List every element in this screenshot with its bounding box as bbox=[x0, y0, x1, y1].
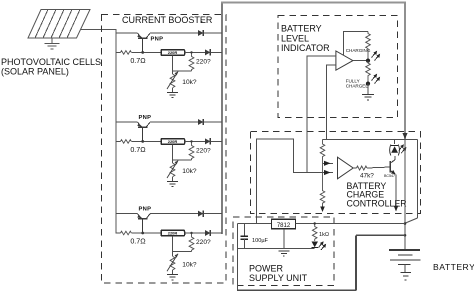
wire base rail from bus bbox=[116, 140, 121, 142]
wire tap to potentiometer bbox=[172, 71, 174, 74]
wire stage2 emitter rail from bus bbox=[116, 121, 138, 123]
svg-text:PNP: PNP bbox=[139, 206, 152, 212]
svg-text:1kΩ: 1kΩ bbox=[319, 232, 329, 238]
wire tap to 220 bottom bbox=[173, 70, 192, 72]
wire base rail from bus bbox=[116, 232, 121, 234]
dashed box CURRENT BOOSTER bbox=[102, 15, 227, 284]
wire tap to potentiometer bbox=[172, 252, 174, 257]
wire diode to output bus bbox=[203, 213, 222, 215]
svg-text:BC547: BC547 bbox=[384, 174, 395, 178]
LED power arrows bbox=[319, 242, 326, 250]
LED fully-charged node bbox=[366, 82, 370, 86]
wire box bottom tap down bbox=[172, 55, 174, 71]
LED fully-charged arrows bbox=[372, 75, 380, 84]
wire U1 output to node bbox=[353, 60, 368, 62]
wire U2 output bbox=[353, 167, 356, 169]
junction base/rail bbox=[141, 140, 144, 143]
wire box to lower diode bbox=[185, 232, 206, 234]
wire psu feed loop bbox=[257, 139, 334, 223]
wire sense line B down to top rail bbox=[326, 118, 328, 140]
svg-text:47k?: 47k? bbox=[360, 172, 374, 179]
wire 7812 ground pin bbox=[283, 229, 285, 249]
wire stage1 emitter rail from bus bbox=[116, 32, 138, 34]
wire box to lower diode bbox=[185, 140, 206, 142]
ground battery bbox=[400, 273, 411, 280]
svg-text:POWER: POWER bbox=[249, 264, 284, 274]
wire divider tap to U2 plus input bbox=[323, 162, 334, 164]
LED D7 with bracket bbox=[390, 145, 400, 156]
wire right bus down bbox=[404, 3, 406, 141]
svg-text:10k?: 10k? bbox=[182, 79, 197, 86]
wire feedback loop top bbox=[344, 32, 368, 56]
resistor box 220R stage2 bbox=[161, 139, 185, 145]
svg-text:100µF: 100µF bbox=[252, 238, 269, 244]
wire diode to output bus bbox=[203, 32, 222, 34]
diode D3b on base rail bbox=[205, 230, 210, 236]
svg-text:(SOLAR PANEL): (SOLAR PANEL) bbox=[1, 67, 69, 77]
wire bottom rail bbox=[237, 289, 356, 291]
resistor 220 ohm vertical stage3 bbox=[189, 233, 194, 252]
wire psu left drop bbox=[237, 224, 239, 291]
wire box bottom tap down bbox=[172, 236, 174, 252]
resistor 0.7ohm stage3 bbox=[121, 231, 132, 235]
LED D7 arrows bbox=[399, 145, 406, 153]
wire stage3 emitter rail from bus bbox=[116, 213, 138, 215]
LED charging arrows bbox=[372, 52, 380, 61]
arrow divider to ground rail bbox=[322, 206, 324, 209]
wire lower diode to bus bbox=[210, 232, 222, 234]
potentiometer 10k stage2 bbox=[170, 163, 175, 177]
potentiometer 10k stage3 bbox=[170, 256, 175, 270]
wire lower diode to bus bbox=[210, 51, 222, 53]
trailing dot after CURRENT BOOSTER bbox=[201, 21, 203, 23]
ground stage3 bbox=[167, 275, 178, 280]
wire diode to output bus bbox=[203, 121, 222, 123]
svg-text:220R: 220R bbox=[168, 231, 178, 236]
svg-text:PNP: PNP bbox=[139, 115, 152, 121]
wire controller top rail bbox=[323, 138, 418, 140]
wire battery to ground bbox=[404, 265, 406, 273]
diode D1a on collector rail bbox=[198, 30, 203, 36]
svg-text:PHOTOVOLTAIC CELLS: PHOTOVOLTAIC CELLS bbox=[1, 57, 101, 67]
junction base/rail bbox=[141, 51, 144, 54]
wire U1 minus input to sense line B bbox=[327, 65, 336, 117]
diode D2a on collector rail bbox=[198, 119, 203, 125]
svg-text:SUPPLY UNIT: SUPPLY UNIT bbox=[249, 273, 308, 283]
ground below solar panel bbox=[45, 38, 60, 49]
dashed box POWER SUPPLY UNIT bbox=[233, 217, 334, 285]
junction base/rail bbox=[141, 232, 144, 235]
svg-text:BATTERY: BATTERY bbox=[433, 262, 474, 272]
op-amp U2 bbox=[338, 157, 354, 179]
wire U1 plus input to sense line A bbox=[307, 56, 336, 118]
arrow current into rail on right bus bbox=[402, 133, 407, 139]
junction rail/220 bbox=[190, 51, 192, 53]
wire tap to 220 bottom bbox=[173, 251, 192, 253]
ground 7812 bbox=[278, 251, 289, 256]
resistor 47k bbox=[357, 166, 367, 170]
diode D2b on base rail bbox=[205, 138, 210, 144]
junction rail/220 bbox=[190, 140, 192, 142]
dashed box BATTERY LEVEL INDICATOR bbox=[278, 16, 398, 118]
wire collector rail to diode bbox=[150, 32, 198, 34]
transistor Q4 BC547 bbox=[390, 160, 395, 175]
arrow into U2 plus input bbox=[324, 161, 331, 166]
wire top rail across bbox=[221, 1, 406, 3]
wire LED to rail bbox=[394, 139, 396, 143]
wire bottom riser bbox=[355, 235, 357, 290]
wire psu output rail bbox=[296, 223, 406, 225]
wire booster left bus bbox=[115, 30, 117, 234]
resistor box 220R stage1 bbox=[161, 50, 185, 56]
resistor between LEDs bbox=[366, 61, 371, 84]
wire 47k to base bbox=[367, 167, 391, 168]
dashed box BATTERY CHARGE CONTROLLER bbox=[251, 132, 421, 214]
wire collector rail to diode bbox=[150, 213, 198, 215]
svg-text:7812: 7812 bbox=[277, 223, 291, 229]
junction psu-out / bus bbox=[404, 222, 407, 225]
wire collector rail to diode bbox=[150, 121, 198, 123]
svg-text:10k?: 10k? bbox=[182, 261, 197, 268]
resistor 0.7ohm stage2 bbox=[121, 140, 132, 144]
capacitor 100uF bbox=[243, 224, 245, 237]
diode D1b on base rail bbox=[205, 49, 210, 55]
regulator 7812 bbox=[272, 219, 296, 229]
transistor Q1 PNP series pass bbox=[137, 33, 150, 52]
wire to ground bbox=[367, 84, 369, 95]
svg-text:0.7Ω: 0.7Ω bbox=[130, 56, 146, 65]
svg-text:220?: 220? bbox=[196, 239, 211, 246]
wire base rail to box resistor bbox=[131, 232, 161, 234]
svg-text:0.7Ω: 0.7Ω bbox=[130, 145, 146, 154]
wire sense line A down to minus line bbox=[306, 118, 308, 173]
resistor 220 ohm vertical stage1 bbox=[189, 52, 194, 71]
wire pot to ground bbox=[172, 270, 174, 275]
ground stage2 bbox=[167, 181, 178, 186]
wire psu input rail bbox=[238, 223, 272, 225]
potentiometer 10k stage1 bbox=[170, 74, 175, 88]
wire base rail to box resistor bbox=[131, 51, 161, 53]
svg-text:PNP: PNP bbox=[151, 37, 164, 43]
resistor divider bottom R bbox=[320, 163, 325, 205]
svg-text:INDICATOR: INDICATOR bbox=[281, 43, 330, 53]
ground level indicator bbox=[362, 95, 374, 100]
svg-text:10k?: 10k? bbox=[182, 168, 197, 175]
LED power indicator bbox=[312, 242, 319, 248]
wire emitter down with arrow bbox=[395, 174, 397, 206]
wire tap to 220 bottom bbox=[173, 159, 192, 161]
wire tap to potentiometer bbox=[172, 160, 174, 163]
battery symbol bbox=[389, 250, 420, 265]
svg-text:CHARGED: CHARGED bbox=[346, 84, 370, 89]
wire pot to ground bbox=[172, 177, 174, 182]
resistor 0.7ohm stage1 bbox=[121, 51, 132, 55]
wire right bus through controller to battery bbox=[404, 139, 406, 250]
transistor Q3 PNP series pass bbox=[137, 214, 150, 233]
svg-text:CHARGING: CHARGING bbox=[346, 48, 371, 53]
wire base rail from bus bbox=[116, 51, 121, 53]
resistor 220 ohm vertical stage2 bbox=[189, 141, 194, 160]
resistor box 220R stage3 bbox=[161, 230, 185, 236]
resistor feedback R in loop bbox=[366, 32, 371, 61]
LED charging node bbox=[366, 59, 370, 63]
resistor divider top R bbox=[320, 139, 325, 163]
wire box bottom tap down bbox=[172, 144, 174, 160]
wire box to lower diode bbox=[185, 51, 206, 53]
transistor Q2 PNP series pass bbox=[137, 122, 150, 141]
junction riser wire / bus bbox=[404, 234, 407, 237]
wire collector to LED bbox=[394, 156, 396, 160]
wire booster output bus bbox=[221, 3, 223, 234]
arrow into U2 minus input bbox=[324, 170, 331, 175]
svg-text:CURRENT BOOSTER: CURRENT BOOSTER bbox=[122, 15, 213, 25]
svg-text:LEVEL: LEVEL bbox=[281, 33, 309, 43]
junction rail/220 bbox=[190, 232, 192, 234]
op-amp U1 comparator bbox=[336, 51, 353, 70]
wire rail end down to battery junction bbox=[417, 139, 419, 218]
svg-text:BATTERY: BATTERY bbox=[281, 24, 322, 34]
wire panel to booster bus bbox=[81, 29, 117, 31]
wire pot to ground bbox=[172, 88, 174, 93]
wire lower diode to bus bbox=[210, 140, 222, 142]
wire psu ground rail bbox=[238, 248, 315, 250]
resistor 1k bbox=[312, 224, 317, 242]
junction psu out / 1k bbox=[314, 222, 316, 224]
svg-text:220R: 220R bbox=[168, 50, 178, 55]
svg-text:220?: 220? bbox=[196, 148, 211, 155]
wire base rail to box resistor bbox=[131, 140, 161, 142]
svg-text:220R: 220R bbox=[168, 139, 178, 144]
diode D3a on collector rail bbox=[198, 211, 203, 217]
wire riser to battery bbox=[356, 234, 405, 236]
svg-text:0.7Ω: 0.7Ω bbox=[130, 236, 146, 245]
solar panel PV array symbol bbox=[28, 10, 90, 39]
svg-text:220?: 220? bbox=[196, 59, 211, 66]
ground stage1 bbox=[167, 92, 178, 97]
